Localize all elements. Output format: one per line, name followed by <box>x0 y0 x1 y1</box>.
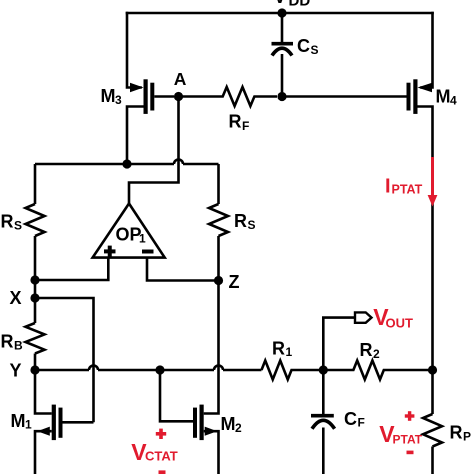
svg-text:1: 1 <box>139 232 146 246</box>
wire VDD rail to M3 source <box>127 13 141 88</box>
label R1 <box>272 338 293 359</box>
transistor M2 <box>193 281 219 474</box>
wire op-amp - input to node Z <box>147 258 219 281</box>
label VPTAT <box>379 421 423 447</box>
svg-text:1: 1 <box>286 345 293 359</box>
label + above VPTAT <box>405 411 415 421</box>
svg-text:F: F <box>242 119 249 133</box>
wire left RS bottom <box>34 236 37 280</box>
op-amp plus input mark <box>104 246 116 258</box>
svg-text:V: V <box>274 0 287 8</box>
wire R2 node to RP <box>431 370 434 414</box>
svg-text:A: A <box>174 69 187 89</box>
svg-text:R: R <box>360 340 373 360</box>
wire X to RB <box>34 298 37 323</box>
svg-text:PTAT: PTAT <box>393 433 423 447</box>
svg-text:F: F <box>358 416 365 430</box>
label OP1 <box>116 225 147 246</box>
svg-text:R: R <box>234 211 247 231</box>
svg-text:OUT: OUT <box>386 316 414 331</box>
svg-text:R: R <box>1 332 14 352</box>
wire left RS top <box>34 164 37 204</box>
op-amp OP1 <box>93 204 165 258</box>
wire right RS top <box>217 164 220 204</box>
svg-text:3: 3 <box>115 93 122 107</box>
resistor RF <box>179 87 278 106</box>
wire RP to bottom <box>431 447 434 474</box>
wire hop over Z-M2 column <box>214 366 223 371</box>
svg-text:R: R <box>272 338 285 358</box>
svg-text:4: 4 <box>450 94 457 108</box>
junction dot Cs bottom node <box>277 92 286 101</box>
junction dot M3 drain <box>122 159 131 168</box>
capacitor CS <box>272 13 294 92</box>
label VCTAT <box>131 439 178 465</box>
svg-text:2: 2 <box>373 347 380 361</box>
resistor RP <box>423 414 442 447</box>
label - below VCTAT <box>159 470 166 474</box>
svg-text:2: 2 <box>235 421 242 435</box>
svg-text:PTAT: PTAT <box>392 183 423 197</box>
junction dot R1/R2/CF <box>319 365 328 374</box>
svg-text:M: M <box>11 411 26 431</box>
terminal VOUT <box>355 312 372 322</box>
svg-text:CTAT: CTAT <box>145 449 178 464</box>
transistor M1 <box>35 405 94 474</box>
label VDD <box>274 0 311 10</box>
svg-text:R: R <box>1 212 14 232</box>
wire hop over X-M1 column <box>89 366 98 371</box>
wire Y to M1 drain <box>35 370 52 414</box>
svg-text:C: C <box>297 36 310 56</box>
wire hop over A-column <box>174 160 183 164</box>
svg-text:M: M <box>221 414 236 434</box>
current arrow IPTAT <box>428 157 438 207</box>
wire Y dot to M2 gate <box>160 370 193 421</box>
wire VDD rail to M4 source <box>422 13 433 88</box>
label VOUT <box>373 304 413 330</box>
node Z dot <box>214 276 223 285</box>
wire VDD rail <box>127 12 433 15</box>
transistor M3 <box>127 79 174 164</box>
label - below VPTAT <box>407 451 414 455</box>
label M4 <box>436 87 458 108</box>
capacitor CF <box>311 370 335 474</box>
svg-text:Z: Z <box>229 272 240 292</box>
resistor RS left <box>26 204 45 236</box>
svg-text:S: S <box>248 218 256 232</box>
junction dot R2 / RP column <box>428 365 437 374</box>
svg-text:I: I <box>385 176 391 198</box>
label RS right <box>234 211 256 232</box>
resistor R2 <box>323 361 431 380</box>
wire Cs node to M4 gate <box>282 95 407 98</box>
wire right RS bottom <box>217 236 220 281</box>
label R2 <box>360 340 381 361</box>
svg-text:R: R <box>450 423 463 443</box>
node A dot <box>174 92 183 101</box>
wire left column between dots <box>34 280 37 298</box>
svg-text:S: S <box>311 43 319 57</box>
transistor M4 <box>407 79 433 370</box>
resistor RB <box>26 323 45 354</box>
label IPTAT <box>385 176 423 198</box>
svg-text:DD: DD <box>289 0 311 10</box>
svg-text:S: S <box>14 219 22 233</box>
svg-text:B: B <box>14 339 23 353</box>
label M3 <box>101 86 123 107</box>
svg-text:OP: OP <box>116 225 142 245</box>
label RS left <box>1 212 23 233</box>
label CF <box>344 409 365 430</box>
label M2 <box>221 414 243 435</box>
wire to VOUT terminal <box>323 318 355 370</box>
node X dot <box>30 293 39 302</box>
svg-text:X: X <box>10 288 22 308</box>
wire node X to M1 gate column <box>35 298 94 422</box>
wire op-amp + input to left column <box>35 258 108 280</box>
resistor R1 <box>262 361 324 380</box>
svg-text:C: C <box>344 409 357 429</box>
label CS <box>297 36 319 57</box>
svg-text:1: 1 <box>25 418 32 432</box>
op-amp minus input mark <box>142 250 154 254</box>
label RF <box>229 112 250 134</box>
svg-text:M: M <box>101 86 116 106</box>
resistor RS right <box>209 204 228 236</box>
svg-text:M: M <box>436 87 451 107</box>
svg-text:R: R <box>229 112 242 132</box>
node Y dot <box>30 365 39 374</box>
wire node A down to op-amp output jog <box>129 97 179 206</box>
label RP <box>450 423 472 444</box>
wire RS top rail <box>35 163 219 166</box>
label RB <box>1 332 24 353</box>
svg-text:P: P <box>463 430 471 444</box>
wire RB to Y <box>34 354 37 371</box>
label + above VCTAT <box>156 429 166 439</box>
junction dot Y / M2 gate <box>155 365 164 374</box>
junction dot left column / + input <box>30 275 39 284</box>
junction dot VDD / Cs <box>277 8 286 17</box>
svg-text:Y: Y <box>10 360 22 380</box>
wire Y row <box>35 369 262 372</box>
label M1 <box>11 411 33 432</box>
